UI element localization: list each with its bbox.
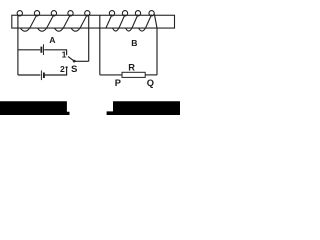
coil A (primary winding, 5 turns) bbox=[17, 11, 90, 32]
svg-text:1: 1 bbox=[62, 50, 67, 60]
svg-text:2: 2 bbox=[60, 64, 65, 74]
wire: switch common to coil A right lead bbox=[74, 60, 89, 62]
svg-text:Q: Q bbox=[147, 78, 154, 88]
wire: coil B left lead (down to resistor loop) bbox=[99, 16, 101, 75]
wire: resistor loop bottom left (coil B lead to node P) bbox=[100, 74, 122, 76]
wire: coil A right lead (down to switch common) bbox=[88, 15, 90, 62]
svg-text:S: S bbox=[71, 64, 78, 75]
wire: branch 1 (bus to battery G1) bbox=[18, 49, 40, 51]
svg-text:P: P bbox=[115, 78, 121, 88]
resistor R (box) bbox=[122, 72, 145, 77]
wire: branch 2 (bus to battery G2) bbox=[18, 74, 41, 76]
iron core (laminated core rectangle) bbox=[12, 15, 175, 28]
wire: battery G1 to contact 1 bbox=[44, 50, 66, 55]
wire: battery G2 to contact 2 bbox=[45, 68, 67, 75]
redaction bar bottom left (cropped text) bbox=[0, 101, 70, 115]
svg-text:A: A bbox=[49, 35, 55, 45]
svg-text:R: R bbox=[128, 62, 135, 72]
redaction bar bottom right (cropped text) bbox=[107, 101, 180, 115]
wire: coil B right lead (down to resistor loop) bbox=[154, 14, 157, 75]
wire: resistor to node Q to coil B right lead bbox=[145, 74, 157, 76]
coil B (secondary winding, 4 turns) bbox=[106, 11, 154, 31]
contact 2 junction dot bbox=[66, 66, 68, 68]
svg-text:B: B bbox=[131, 38, 137, 48]
switch S arm (from pivot toward contact 1, open) bbox=[68, 57, 74, 62]
battery cell G2 (bottom branch: long thin plate left, short thick plate right) bbox=[41, 70, 44, 80]
battery cell G1 (top branch: short thick plate left, long thin plate right) bbox=[41, 44, 43, 55]
wire: coil A left lead / left bus down to battery branches bbox=[17, 15, 19, 75]
switch S pivot dot bbox=[73, 60, 76, 63]
